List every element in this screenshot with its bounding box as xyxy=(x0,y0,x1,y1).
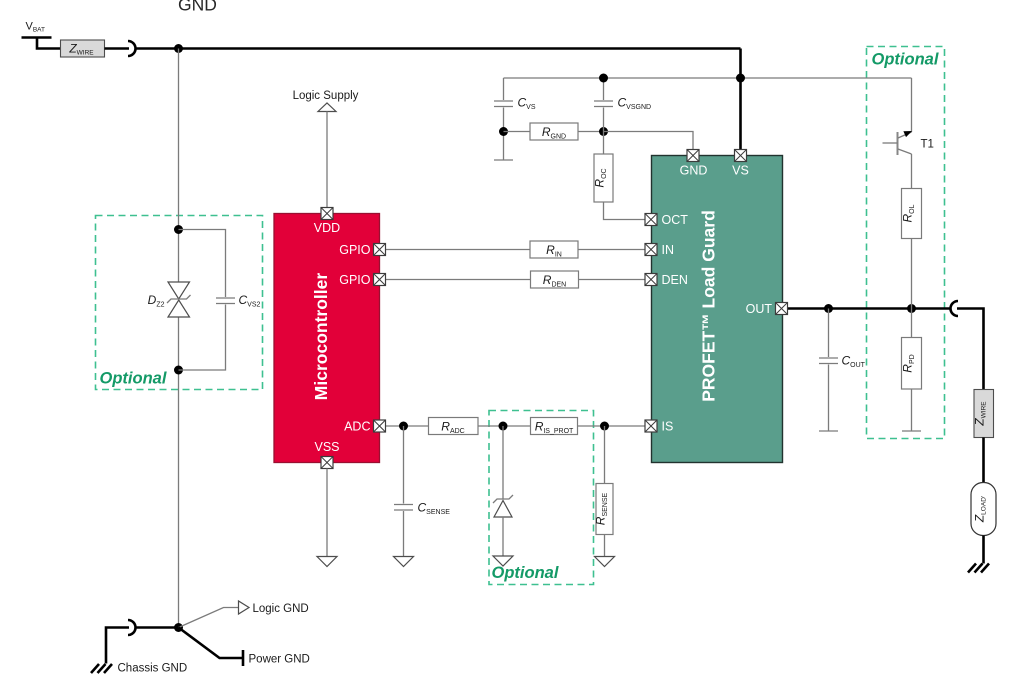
wire RSENSE top xyxy=(604,426,606,484)
wire power gnd xyxy=(179,628,243,659)
node zener xyxy=(499,422,508,431)
resistor RPD xyxy=(901,338,922,390)
wire VS drop xyxy=(739,49,742,150)
svg-text:VS: VS xyxy=(732,164,749,178)
pin GND (PROFET) xyxy=(687,150,699,162)
svg-text:Optional: Optional xyxy=(492,564,559,582)
svg-text:VDD: VDD xyxy=(314,221,340,235)
pin GPIO2 xyxy=(374,274,386,286)
svg-text:OCT: OCT xyxy=(662,213,689,227)
wire to chassis connector xyxy=(136,626,179,629)
ground RSENSE xyxy=(595,557,615,567)
wire ADC to RADC xyxy=(380,425,429,427)
wire GPIO2 to RDEN xyxy=(380,279,531,281)
wire Zwire2 to Zload xyxy=(982,438,985,483)
wire RPD top xyxy=(911,309,913,338)
wire OUT to Zwire2 xyxy=(957,309,984,390)
svg-text:PROFET™ Load Guard: PROFET™ Load Guard xyxy=(699,210,719,402)
wire CVS bottom xyxy=(503,108,505,160)
termination COUT xyxy=(819,430,838,432)
node RGND/CVSGND/ROC xyxy=(599,127,608,136)
svg-text:T1: T1 xyxy=(921,139,934,151)
wire RADC to RISPROT xyxy=(478,425,531,427)
svg-text:GPIO: GPIO xyxy=(339,243,371,257)
wire RPD bottom xyxy=(911,389,913,431)
svg-text:GPIO: GPIO xyxy=(339,273,371,287)
termination RPD xyxy=(902,430,921,432)
svg-text:GND: GND xyxy=(680,164,708,178)
pin ADC xyxy=(374,420,386,432)
wire logic supply to VDD xyxy=(326,112,328,208)
wire COUT top xyxy=(828,309,830,358)
wire CSENSE top xyxy=(403,426,405,504)
wire RGND to node xyxy=(578,131,604,133)
node RSENSE xyxy=(600,422,609,431)
node DZ2 bottom xyxy=(174,366,183,375)
wire ROL to OUT xyxy=(911,239,913,309)
wire zener top xyxy=(502,426,504,499)
wire CSENSE bottom xyxy=(403,511,405,557)
wire Zwire to connector xyxy=(105,47,130,50)
svg-text:IN: IN xyxy=(662,243,675,257)
svg-text:Chassis GND: Chassis GND xyxy=(118,663,188,675)
wire COUT bottom xyxy=(828,365,830,431)
transistor T1 xyxy=(883,131,913,155)
svg-text:Power GND: Power GND xyxy=(249,654,310,666)
Logic Supply terminal xyxy=(318,103,336,112)
node supply/left branch xyxy=(174,44,183,53)
wire GPIO1 to RIN xyxy=(380,249,531,251)
connector (battery harness) xyxy=(128,41,136,56)
wire CVSGND top xyxy=(603,78,605,100)
node VS crossing xyxy=(736,74,745,83)
ground CSENSE xyxy=(394,557,414,567)
connector (chassis) xyxy=(128,620,136,635)
chassis ground (left) xyxy=(91,664,112,673)
svg-text:GND: GND xyxy=(178,0,217,15)
wire logic gnd xyxy=(179,608,239,628)
svg-text:Logic Supply: Logic Supply xyxy=(293,90,359,102)
svg-text:OUT: OUT xyxy=(746,302,773,316)
resistor RSENSE xyxy=(594,484,614,535)
wire ROC to OCT xyxy=(604,202,646,220)
logic gnd terminal xyxy=(239,601,250,614)
wire T1 to ROL xyxy=(911,154,913,189)
capacitor CVS xyxy=(494,101,513,107)
capacitor CSENSE xyxy=(394,505,413,511)
wire RSENSE bottom xyxy=(604,535,606,557)
wire supply bus xyxy=(136,47,741,50)
capacitor CVS2 xyxy=(216,298,235,304)
wire ROC top xyxy=(603,132,605,155)
node bottom left xyxy=(174,623,183,632)
wire CVS2 top branch xyxy=(179,230,226,298)
impedance Zwire (battery side) xyxy=(61,40,105,57)
resistor ROL xyxy=(901,189,922,239)
svg-text:Microcontroller: Microcontroller xyxy=(311,273,331,401)
wire VSS to ground xyxy=(326,469,328,557)
power gnd terminal xyxy=(242,650,245,666)
left optional dashed box xyxy=(96,216,263,390)
pin DEN xyxy=(645,274,657,286)
svg-text:DEN: DEN xyxy=(662,273,688,287)
right optional dashed box xyxy=(867,47,945,439)
wire RISPROT to IS xyxy=(578,425,651,427)
svg-text:Optional: Optional xyxy=(872,51,939,69)
svg-text:VSS: VSS xyxy=(314,440,339,454)
chassis ground (load) xyxy=(968,564,989,573)
wire CVS to RGND xyxy=(504,131,531,133)
pin IS xyxy=(645,420,657,432)
resistor RIN xyxy=(530,241,578,259)
node COUT xyxy=(824,304,833,313)
node CSENSE xyxy=(399,422,408,431)
svg-text:IS: IS xyxy=(662,420,674,434)
svg-text:Logic GND: Logic GND xyxy=(253,603,309,615)
load Zload xyxy=(971,483,996,536)
wire CVS2 bottom branch xyxy=(179,305,226,371)
capacitor COUT xyxy=(819,358,838,364)
microcontroller block U2 xyxy=(274,214,380,463)
bottom optional dashed box xyxy=(489,411,594,585)
impedance Zwire (load side) xyxy=(973,390,994,438)
wire CVS top xyxy=(503,78,505,100)
PROFET Load Guard block U1 xyxy=(652,156,783,463)
resistor RGND xyxy=(530,123,578,141)
node CVS / RGND xyxy=(499,127,508,136)
pin VDD xyxy=(321,208,333,220)
wire left vertical rail lower xyxy=(178,317,180,628)
connector (load harness) xyxy=(951,301,958,316)
node CVSGND top xyxy=(599,74,608,83)
wire OUT thick xyxy=(783,307,952,310)
pin VS xyxy=(735,150,747,162)
wire node to GND pin xyxy=(604,132,694,150)
wire CVSGND bottom xyxy=(603,108,605,132)
ground zener xyxy=(493,556,513,566)
wire RIN to IN xyxy=(578,249,651,251)
zener diode D1 xyxy=(493,495,513,517)
wire left vertical rail upper xyxy=(178,49,180,283)
resistor RADC xyxy=(429,418,479,436)
VBAT terminal xyxy=(22,38,61,49)
wire T1 collector from bus xyxy=(911,78,913,132)
termination CVS xyxy=(494,159,513,161)
node RPD xyxy=(907,304,916,313)
wire RDEN to DEN xyxy=(579,279,651,281)
resistor ROC xyxy=(593,154,614,202)
pin IN xyxy=(645,244,657,256)
resistor RDEN xyxy=(531,271,579,289)
pin VSS xyxy=(321,457,333,469)
node DZ2 top xyxy=(174,225,183,234)
wire chassis drop xyxy=(106,628,129,664)
pin OCT xyxy=(645,214,657,226)
capacitor CVSGND xyxy=(594,101,613,107)
svg-text:Optional: Optional xyxy=(100,370,167,388)
TVS diode DZ2 xyxy=(167,282,191,317)
wire Zload to chassis xyxy=(982,536,985,564)
resistor RISPROT xyxy=(531,418,578,436)
wire zener bottom xyxy=(502,517,504,556)
pin OUT xyxy=(776,303,788,315)
svg-text:ADC: ADC xyxy=(344,420,370,434)
pin GPIO1 xyxy=(374,244,386,256)
ground VSS xyxy=(317,557,337,567)
wire top thin bus xyxy=(504,77,912,79)
